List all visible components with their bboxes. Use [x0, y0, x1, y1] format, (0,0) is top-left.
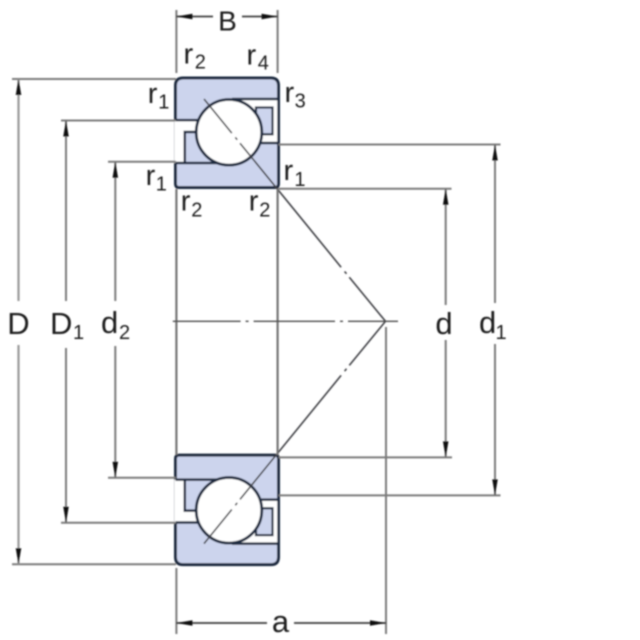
- svg-text:r: r: [184, 39, 194, 71]
- extension line d bottom: [279, 456, 453, 458]
- arrow a left: [176, 620, 192, 626]
- horizontal centerline: [173, 320, 398, 322]
- svg-text:a: a: [272, 604, 290, 639]
- svg-text:1: 1: [73, 322, 84, 344]
- dimension line D: [17, 79, 19, 564]
- arrow a right: [370, 620, 386, 626]
- extension line D1 bottom: [61, 522, 176, 524]
- arrow d1 down: [492, 479, 498, 495]
- svg-text:r: r: [146, 160, 156, 192]
- svg-text:r: r: [285, 77, 295, 109]
- arrow d up: [443, 189, 449, 205]
- side face line left: [175, 189, 177, 455]
- svg-text:3: 3: [295, 91, 306, 113]
- svg-text:1: 1: [156, 174, 167, 196]
- dimension line d: [445, 189, 447, 458]
- extension line B right: [277, 10, 279, 73]
- svg-text:d: d: [101, 305, 118, 340]
- svg-text:d: d: [435, 306, 452, 341]
- svg-text:1: 1: [496, 322, 507, 344]
- dimension line D1: [65, 121, 67, 523]
- svg-text:2: 2: [191, 200, 202, 222]
- dimension line B: [176, 16, 277, 18]
- arrow B right: [262, 14, 278, 20]
- extension line d1 bottom: [279, 494, 501, 496]
- side face line right: [277, 189, 279, 455]
- extension line a right (from apex): [385, 327, 387, 634]
- svg-text:D: D: [7, 306, 29, 341]
- arrow D1 up: [63, 121, 69, 137]
- svg-text:1: 1: [294, 169, 305, 191]
- svg-text:2: 2: [119, 322, 130, 344]
- arrow d2 up: [113, 162, 119, 178]
- extension line D bottom: [12, 563, 176, 565]
- svg-text:r: r: [181, 186, 191, 218]
- svg-text:2: 2: [259, 200, 270, 222]
- extension line d2 bottom: [108, 477, 176, 479]
- dimension line a: [176, 622, 386, 624]
- svg-text:4: 4: [258, 53, 269, 75]
- arrow D1 down: [63, 507, 69, 523]
- svg-text:d: d: [479, 305, 496, 340]
- arrow B left: [176, 14, 192, 20]
- arrow d2 down: [113, 462, 119, 478]
- dimension line d2: [114, 162, 116, 478]
- extension line d top: [279, 188, 452, 190]
- svg-text:B: B: [218, 6, 237, 37]
- svg-text:1: 1: [158, 92, 169, 114]
- extension line d1 top: [279, 144, 501, 146]
- r labels: [146, 39, 306, 222]
- svg-text:r: r: [249, 186, 259, 218]
- extension line d2 top: [108, 161, 176, 163]
- extension line a left: [175, 568, 177, 634]
- svg-text:r: r: [247, 40, 257, 72]
- arrow d1 up: [492, 145, 498, 161]
- svg-text:r: r: [284, 155, 294, 187]
- dimension line d1: [494, 145, 496, 496]
- svg-text:2: 2: [195, 52, 206, 74]
- arrow d down: [443, 441, 449, 457]
- svg-text:r: r: [148, 78, 158, 110]
- extension line D1 top: [61, 120, 176, 122]
- extension line D top: [12, 78, 176, 80]
- extension line B left: [175, 10, 177, 73]
- svg-text:D: D: [50, 306, 72, 341]
- arrow D up: [16, 79, 22, 95]
- arrow D down: [16, 548, 22, 564]
